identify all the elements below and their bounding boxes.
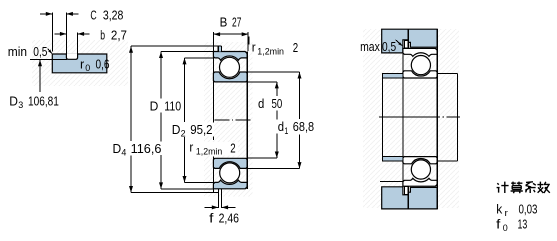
inner ring bottom right figure (white) <box>403 157 437 164</box>
hatch region main figure <box>204 42 253 197</box>
svg-text:0,03: 0,03 <box>519 202 538 216</box>
shaft shoulder bottom <box>382 157 403 162</box>
svg-text:f: f <box>496 217 501 231</box>
svg-text:r: r <box>80 57 84 71</box>
text D2 95,2 <box>170 123 214 140</box>
dimension C 3,28 <box>40 9 123 23</box>
svg-text:D: D <box>172 123 181 137</box>
svg-text:d: d <box>278 120 284 134</box>
left face line <box>212 32 214 140</box>
dimension B 27 <box>213 16 248 37</box>
计算系数 (mock bold CJK glyphs) <box>497 182 550 194</box>
r0 0,6 label <box>80 57 110 74</box>
centerline right <box>379 116 460 118</box>
svg-text:4: 4 <box>121 148 126 159</box>
min 0,5 label + leader <box>8 45 53 59</box>
svg-text:0,5: 0,5 <box>382 40 396 54</box>
svg-text:B: B <box>220 16 228 30</box>
outer ring bottom <box>213 180 247 189</box>
snap ring groove (detail) <box>66 53 77 59</box>
dimension D3 106,81 <box>9 60 59 111</box>
left face line right figure <box>402 48 404 186</box>
outer ring bottom right figure (white) <box>403 178 437 186</box>
svg-text:C: C <box>90 9 96 23</box>
dimension b 2,7 <box>55 29 128 43</box>
max 0,5 label + leader <box>360 40 403 54</box>
snap ring groove notch top (blue filled) <box>218 46 221 51</box>
svg-text:2,7: 2,7 <box>111 29 127 43</box>
right face line right figure <box>436 29 438 209</box>
svg-text:2,46: 2,46 <box>219 211 239 225</box>
outer ring segment (detail) <box>52 54 107 73</box>
svg-text:D: D <box>113 142 122 156</box>
kr 0,03 <box>496 202 537 219</box>
svg-text:r: r <box>189 141 193 155</box>
svg-text:D: D <box>9 94 18 108</box>
svg-text:110: 110 <box>164 100 181 114</box>
centerline <box>214 119 250 121</box>
svg-text:d: d <box>258 97 264 111</box>
r 1,2min 2 label top <box>249 37 298 58</box>
D2 dimension line <box>183 58 214 183</box>
right face line <box>247 32 249 51</box>
ball bottom <box>220 163 240 183</box>
housing top block <box>382 29 438 53</box>
inner ring top <box>213 72 247 82</box>
ball bottom right figure <box>411 160 430 179</box>
svg-text:2: 2 <box>230 141 235 155</box>
extension line groove left wall up <box>65 13 67 54</box>
svg-text:1,2min: 1,2min <box>196 147 222 158</box>
D4 dimension line <box>129 46 222 192</box>
svg-text:r: r <box>505 208 508 219</box>
svg-text:f: f <box>209 211 214 225</box>
shaft shoulder face line <box>381 74 383 162</box>
text d 50 <box>256 97 286 112</box>
text d1 68,8 <box>276 120 323 138</box>
text D4 116,6 <box>111 142 163 159</box>
text D 110 <box>148 99 183 114</box>
svg-text:13: 13 <box>518 217 528 231</box>
svg-text:2: 2 <box>181 129 186 140</box>
svg-text:3: 3 <box>18 100 23 111</box>
d dimension line <box>247 82 279 158</box>
outer ring top right figure <box>403 48 437 56</box>
hatch region left detail <box>32 40 128 86</box>
inner ring top right figure <box>403 71 437 78</box>
svg-text:50: 50 <box>272 97 283 111</box>
svg-text:max: max <box>360 40 380 54</box>
hatch region right figure <box>363 29 459 208</box>
svg-text:106,81: 106,81 <box>28 94 59 108</box>
svg-text:0,5: 0,5 <box>33 45 47 59</box>
svg-text:1: 1 <box>284 126 288 137</box>
svg-text:D: D <box>150 100 159 114</box>
svg-text:0: 0 <box>85 63 90 74</box>
snap ring top <box>405 40 409 48</box>
svg-text:0: 0 <box>503 223 508 234</box>
f0 13 <box>496 217 527 234</box>
svg-text:3,28: 3,28 <box>103 9 124 23</box>
outer ring top <box>213 52 247 61</box>
svg-text:r: r <box>252 41 256 55</box>
svg-text:min: min <box>8 45 27 59</box>
extension line C left <box>51 13 53 52</box>
svg-text:b: b <box>100 29 105 43</box>
svg-text:116,6: 116,6 <box>131 142 162 156</box>
shaft shoulder top <box>382 74 403 78</box>
svg-text:0,6: 0,6 <box>96 57 110 71</box>
housing bottom block <box>380 181 437 209</box>
D dimension line <box>159 52 213 189</box>
extension line groove right wall up <box>77 32 79 54</box>
svg-text:1,2min: 1,2min <box>257 46 284 57</box>
snap ring bottom <box>405 187 409 195</box>
ball top <box>220 57 240 77</box>
abutment bracket right <box>437 74 457 161</box>
svg-text:27: 27 <box>232 16 241 30</box>
ball top right figure <box>411 56 430 75</box>
svg-text:k: k <box>496 202 503 216</box>
d1 dimension line <box>247 72 301 169</box>
svg-text:95,2: 95,2 <box>190 123 212 137</box>
inner ring bottom <box>213 158 247 168</box>
svg-text:2: 2 <box>293 41 298 55</box>
D3 groove-bottom level line (detail) <box>30 59 67 61</box>
snap ring groove notch bottom walls / f extension lines <box>218 189 221 208</box>
r 1,2min 2 label bottom <box>188 141 238 158</box>
svg-text:68,8: 68,8 <box>293 120 314 134</box>
dimension f 2,46 <box>205 205 240 225</box>
